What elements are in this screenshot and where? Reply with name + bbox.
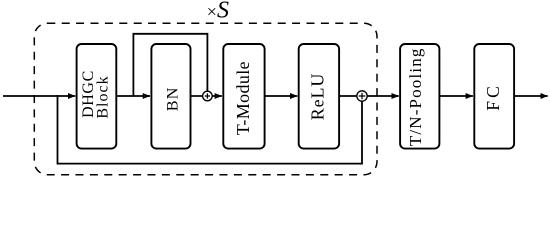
adder 1 (203, 91, 213, 101)
wire T-Module to ReLU arrow (265, 95, 298, 97)
svg-text:FC: FC (483, 83, 503, 111)
wire BN to adder (191, 95, 204, 97)
svg-text:ReLU: ReLU (308, 73, 328, 121)
svg-text:×S: ×S (207, 0, 229, 24)
wire adder2 to T/N-Pooling arrow (367, 95, 399, 97)
svg-text:BN: BN (165, 86, 182, 111)
wire T/N-Pooling to FC arrow (439, 95, 473, 97)
block FC (474, 44, 514, 149)
svg-text:T-Module: T-Module (233, 61, 253, 135)
svg-text:T/N-Pooling: T/N-Pooling (406, 47, 425, 146)
wire input arrow (3, 95, 75, 97)
dashed repeat-block boundary (34, 23, 377, 174)
svg-text:Block: Block (95, 75, 112, 118)
block T-Module (223, 44, 264, 149)
wire adder to T-Module arrow (212, 95, 222, 97)
block DHGC Block (77, 44, 117, 149)
wire ReLU to adder2 (339, 95, 357, 97)
adder 2 (357, 91, 367, 101)
block ReLU (299, 44, 339, 149)
block BN (151, 44, 190, 149)
wire DHGC to BN arrow (116, 95, 150, 97)
block T/N-Pooling (400, 44, 439, 149)
wire FC to output arrow (514, 95, 548, 97)
wire skip over BN (133, 34, 207, 96)
wire bottom residual branch (58, 95, 363, 164)
